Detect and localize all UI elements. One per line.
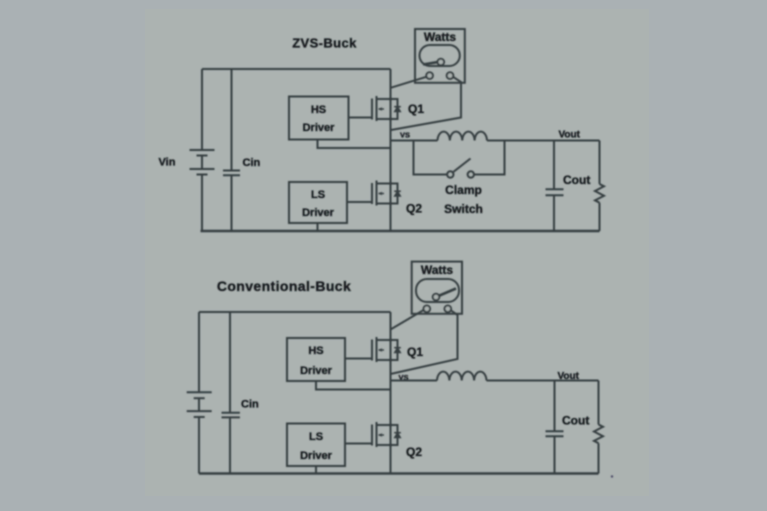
- svg-text:Q1: Q1: [408, 102, 424, 116]
- svg-text:Cout: Cout: [562, 414, 589, 428]
- svg-text:Switch: Switch: [444, 202, 483, 216]
- wire meter right probe to VS C2: [391, 310, 458, 374]
- power meter W1 C1: [415, 29, 465, 83]
- svg-text:Watts: Watts: [424, 30, 457, 44]
- resistor load C1: [595, 184, 604, 203]
- wire HS driver output to Q1 gate C1: [349, 117, 372, 119]
- battery C2: [187, 392, 212, 417]
- wire inductor to Vout node C1: [487, 140, 600, 142]
- capacitor Cout C1: [546, 189, 564, 195]
- svg-text:Cin: Cin: [243, 157, 261, 169]
- svg-text:Driver: Driver: [300, 450, 333, 462]
- svg-text:LS: LS: [309, 431, 323, 443]
- wire load top lead C1: [599, 141, 601, 185]
- wire Cin top lead C2: [229, 312, 231, 413]
- clamp switch contact right C1: [468, 171, 474, 177]
- wire Cin bottom lead C2: [229, 417, 231, 473]
- svg-text:Conventional-Buck: Conventional-Buck: [217, 278, 351, 294]
- svg-text:Driver: Driver: [302, 207, 335, 219]
- wire load bottom lead C2: [598, 443, 600, 473]
- wire bottom ground rail C1: [201, 230, 600, 232]
- node artifact dot bottom right: [611, 475, 613, 477]
- svg-text:Driver: Driver: [303, 122, 336, 134]
- wire Vin positive lead C1: [201, 69, 203, 150]
- wire LS driver ground C1: [317, 223, 319, 231]
- wire LS driver ground C2: [315, 466, 317, 474]
- svg-text:ZVS-Buck: ZVS-Buck: [292, 36, 357, 51]
- HS driver C2: [287, 338, 345, 381]
- power meter W2 C2: [412, 262, 462, 314]
- inner panel background: [145, 9, 649, 496]
- svg-text:VS: VS: [400, 131, 410, 140]
- capacitor Cin C2: [222, 413, 240, 418]
- wire load top lead C2: [598, 381, 600, 425]
- svg-text:Q2: Q2: [406, 202, 422, 216]
- wire meter right probe to VS C1: [391, 77, 461, 130]
- transistor Q1 C1: [372, 96, 401, 121]
- svg-text:HS: HS: [311, 104, 326, 116]
- wire clamp left tap C1: [414, 141, 448, 175]
- wire switch node rail C2: [390, 312, 392, 474]
- clamp switch contact left C1: [447, 171, 453, 177]
- wire top rail C2: [199, 311, 391, 313]
- svg-text:Watts: Watts: [421, 263, 454, 277]
- wire HS reference to VS C2: [316, 381, 391, 390]
- wire meter left probe to Q1 drain C2: [391, 310, 424, 330]
- svg-text:Q2: Q2: [406, 445, 422, 459]
- svg-text:LS: LS: [311, 189, 325, 201]
- wire Vin negative lead C2: [198, 417, 200, 474]
- wire clamp right tap C1: [474, 141, 505, 175]
- wire Cout bottom lead C1: [553, 195, 555, 231]
- wire bottom ground rail C2: [199, 472, 599, 474]
- wire Cout bottom lead C2: [554, 436, 556, 473]
- svg-text:HS: HS: [308, 345, 323, 357]
- wire HS driver reference to VS C1: [318, 140, 391, 149]
- inductor L1 C1: [438, 132, 487, 141]
- wire Cout top lead C1: [553, 141, 555, 190]
- LS driver C2: [287, 424, 345, 467]
- capacitor Cout C2: [546, 431, 564, 436]
- wire Cout top lead C2: [554, 381, 556, 432]
- wire top rail C1: [202, 68, 391, 70]
- svg-text:Cin: Cin: [241, 399, 259, 411]
- svg-text:Vout: Vout: [559, 130, 581, 141]
- wire Cin top lead C1: [231, 69, 233, 171]
- transistor Q2 C2: [372, 422, 401, 447]
- wire inductor to Vout node C2: [487, 380, 599, 382]
- wire LS driver output to Q2 gate C1: [347, 201, 371, 203]
- transistor Q2 C1: [372, 181, 401, 206]
- svg-text:Clamp: Clamp: [445, 183, 482, 197]
- HS driver U1 C1: [289, 97, 349, 140]
- wire Vin negative lead C1: [201, 175, 203, 232]
- svg-text:Vin: Vin: [159, 157, 176, 169]
- wire Vin positive lead C2: [198, 312, 200, 392]
- wire meter left probe to Q1 drain C1: [391, 77, 426, 88]
- clamp switch blade C1: [454, 159, 471, 172]
- wire LS output to Q2 gate C2: [345, 443, 371, 445]
- inductor C2: [437, 372, 486, 381]
- capacitor Cin C1: [223, 171, 240, 176]
- wire load bottom lead C1: [599, 203, 601, 231]
- transistor Q1 C2: [372, 337, 401, 362]
- wire HS output to Q1 gate C2: [345, 358, 371, 360]
- svg-text:Q1: Q1: [407, 345, 423, 359]
- wire VS node to inductor C1: [391, 140, 438, 142]
- LS driver U2 C1: [289, 182, 347, 223]
- wire VS to inductor C2: [391, 380, 438, 382]
- resistor load C2: [594, 425, 603, 444]
- svg-text:Driver: Driver: [300, 365, 333, 377]
- svg-text:Cout: Cout: [563, 173, 590, 187]
- wire switch node rail C1: [390, 69, 392, 231]
- wire Cin bottom lead C1: [231, 175, 233, 231]
- battery Vin C1: [190, 150, 215, 175]
- svg-text:Vout: Vout: [558, 371, 580, 382]
